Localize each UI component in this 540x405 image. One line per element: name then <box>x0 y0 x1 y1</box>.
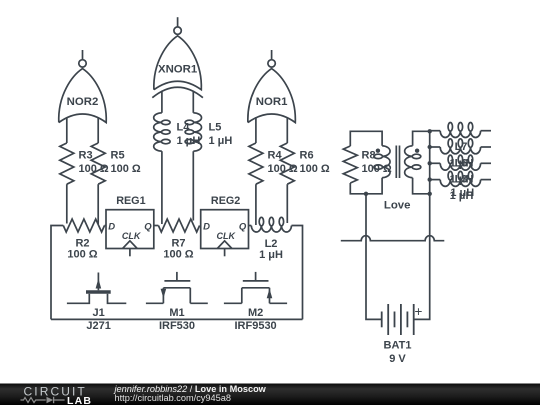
junction bus row3 <box>428 161 432 165</box>
PMOS M2 <box>224 272 287 303</box>
label L1 <box>450 187 474 199</box>
svg-text:BAT1: BAT1 <box>384 340 412 352</box>
wire NOR2 input A <box>66 117 68 143</box>
footer credit <box>113 384 267 394</box>
svg-text:100 Ω: 100 Ω <box>300 163 330 175</box>
svg-text:REG1: REG1 <box>116 195 145 207</box>
svg-text:1 μH: 1 μH <box>209 135 233 147</box>
svg-text:M1: M1 <box>169 307 184 319</box>
inductor L4 <box>154 113 170 151</box>
svg-text:IRF9530: IRF9530 <box>234 320 276 332</box>
wire R6 to L2 <box>286 184 288 223</box>
label IRF530 <box>159 320 195 332</box>
label R5 <box>111 150 141 176</box>
junction bus row2 <box>428 145 432 149</box>
wire primary loop <box>350 131 382 194</box>
footer url <box>115 393 231 403</box>
label R4 <box>268 150 298 176</box>
NOR gate NOR2 <box>59 50 107 123</box>
NOR gate NOR1 <box>248 50 296 123</box>
label Love <box>384 200 411 212</box>
label R3 <box>79 150 109 176</box>
svg-text:Love: Love <box>384 200 411 212</box>
resistor R8 <box>343 146 357 183</box>
svg-text:Q: Q <box>144 222 152 233</box>
D flip-flop REG1 <box>106 210 154 257</box>
wire NOR1 input B <box>286 117 288 143</box>
label R7 <box>163 238 193 261</box>
battery plus sign <box>415 304 423 319</box>
label L7 <box>450 141 474 169</box>
resistor R2 <box>63 219 104 232</box>
label REG2 <box>211 195 240 207</box>
label L6 <box>450 157 474 185</box>
svg-text:100 Ω: 100 Ω <box>67 249 97 261</box>
svg-text:+: + <box>415 304 423 319</box>
label R6 <box>300 150 330 176</box>
wire left rail <box>51 226 63 320</box>
inductor L1 <box>430 171 491 186</box>
JFET J1 <box>67 273 126 304</box>
footer logo CIRCUIT <box>24 385 87 399</box>
junction bus row4 <box>428 177 432 181</box>
svg-text:J1: J1 <box>92 307 104 319</box>
wire secondary bus <box>429 131 431 194</box>
label M2 <box>248 307 263 319</box>
label 9V <box>389 353 406 365</box>
wire R2 to REG1 <box>105 225 107 227</box>
wire L4 to bus <box>161 151 163 224</box>
inductor L3 <box>430 155 491 170</box>
label IRF9530 <box>234 320 276 332</box>
label L4 <box>177 122 201 148</box>
inductor L5 <box>185 113 201 151</box>
inductor L7 <box>430 123 491 138</box>
transformer core <box>396 146 399 179</box>
label R8 <box>362 150 392 176</box>
wire crossing with hops <box>341 236 445 241</box>
label M1 <box>169 307 184 319</box>
junction bus top <box>428 129 432 133</box>
footer logo LAB <box>67 395 92 405</box>
NMOS M1 <box>146 272 208 303</box>
wire L5 to bus <box>192 151 194 220</box>
resistor R3 <box>60 143 74 184</box>
junction primary bottom <box>364 192 368 196</box>
wire NOR1 input A <box>255 117 257 143</box>
transformer TX1 primary coil <box>374 146 390 178</box>
XNOR gate XNOR1 <box>152 17 203 98</box>
svg-text:J271: J271 <box>86 320 110 332</box>
transformer secondary phase dot <box>415 149 419 153</box>
svg-text:NOR2: NOR2 <box>67 96 99 108</box>
svg-text:NOR1: NOR1 <box>256 96 288 108</box>
svg-text:CLK: CLK <box>122 231 142 241</box>
label J1 <box>92 307 104 319</box>
transformer TX1 secondary coil <box>405 146 421 178</box>
svg-text:M2: M2 <box>248 307 263 319</box>
D flip-flop REG2 <box>201 210 249 257</box>
inductor L2 <box>251 217 291 232</box>
wire R5 to bus <box>97 184 99 224</box>
footer logo squiggle <box>21 397 65 403</box>
svg-text:REG2: REG2 <box>211 195 240 207</box>
svg-text:LAB: LAB <box>67 395 92 405</box>
wire bottom rail <box>51 318 303 320</box>
battery BAT1 <box>382 304 414 335</box>
wire secondary to battery <box>414 194 430 320</box>
wire R4 to L2 <box>255 184 257 225</box>
svg-text:1 μH: 1 μH <box>450 187 474 199</box>
label L2 <box>259 238 283 261</box>
label J271 <box>86 320 110 332</box>
svg-text:L4: L4 <box>177 122 191 134</box>
label BAT1 <box>384 340 412 352</box>
svg-text:http://circuitlab.com/cy945a8: http://circuitlab.com/cy945a8 <box>115 393 231 403</box>
svg-text:R6: R6 <box>300 150 314 162</box>
label REG1 <box>116 195 145 207</box>
wire XNOR1 input A <box>161 91 163 113</box>
svg-text:D: D <box>203 222 210 233</box>
svg-text:100 Ω: 100 Ω <box>111 163 141 175</box>
svg-text:CLK: CLK <box>217 231 237 241</box>
wire R3 to bus <box>66 184 68 223</box>
svg-text:L5: L5 <box>209 122 222 134</box>
svg-text:Q: Q <box>239 222 247 233</box>
svg-text:D: D <box>108 222 115 233</box>
junction bus bottom <box>428 192 432 196</box>
wire XNOR1 input B <box>192 91 194 113</box>
transformer primary phase dot <box>376 149 380 153</box>
wire primary to battery <box>366 194 382 320</box>
svg-text:1 μH: 1 μH <box>259 249 283 261</box>
footer bar <box>0 384 540 405</box>
label R2 <box>67 238 97 261</box>
svg-text:IRF530: IRF530 <box>159 320 195 332</box>
resistor R7 <box>158 219 199 232</box>
wire REG1 Q to R7 <box>154 225 159 227</box>
wire NOR2 input B <box>97 117 99 143</box>
resistor R6 <box>280 143 294 184</box>
svg-text:XNOR1: XNOR1 <box>158 63 198 75</box>
svg-text:100 Ω: 100 Ω <box>163 249 193 261</box>
label L3 <box>450 174 474 202</box>
label L5 <box>209 122 233 148</box>
svg-text:9 V: 9 V <box>389 353 406 365</box>
svg-text:R5: R5 <box>111 150 125 162</box>
resistor R4 <box>249 143 263 184</box>
resistor R5 <box>91 143 105 184</box>
wire right rail <box>292 226 303 320</box>
wire REG2 Q to L2 <box>249 225 252 227</box>
wire secondary loop <box>413 131 430 194</box>
inductor L6 <box>430 139 491 154</box>
